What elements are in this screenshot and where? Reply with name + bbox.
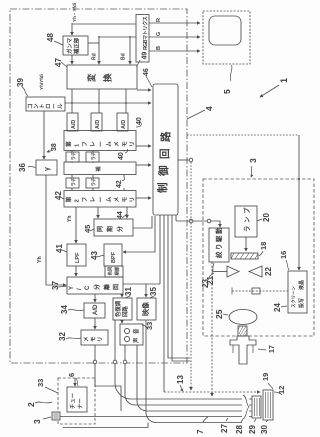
wire control box to 43 <box>123 216 155 252</box>
svg-text:Yh・Yfdi: Yh・Yfdi <box>72 3 77 22</box>
wire Yh input down to box 48 <box>71 23 73 35</box>
wire control bottom x176 <box>175 215 177 221</box>
label 5 <box>222 65 232 94</box>
svg-text:25: 25 <box>214 309 224 319</box>
svg-text:30: 30 <box>260 425 269 434</box>
label 42b <box>116 177 125 188</box>
wire control bottom x173 down <box>172 215 190 361</box>
label 33 frame <box>36 379 58 393</box>
wire 33 down a <box>125 345 135 405</box>
svg-text:音: 音 <box>132 328 140 334</box>
frame 4 (main unit, dash-dot) <box>10 9 187 363</box>
wire control bottom x164 to right <box>163 215 165 392</box>
wire x191 long down (dotted) <box>190 162 192 390</box>
antenna terminal <box>52 412 60 420</box>
cable line 11 <box>156 422 242 424</box>
wire 31 to 33 <box>121 320 123 323</box>
svg-text:18: 18 <box>259 242 268 250</box>
stub column c <box>123 151 125 191</box>
wire 35 down <box>146 320 156 423</box>
box 20 lamp <box>235 206 257 237</box>
wire 43 to chroma <box>112 265 114 268</box>
svg-text:33: 33 <box>36 379 45 387</box>
svg-text:42: 42 <box>54 191 63 200</box>
svg-text:47: 47 <box>54 58 63 67</box>
svg-text:同: 同 <box>96 226 104 232</box>
wire 37 right bus <box>123 283 160 285</box>
svg-text:31: 31 <box>124 287 133 296</box>
wire control bottom x169 down <box>168 215 190 358</box>
wide box B (interp) <box>64 162 136 175</box>
svg-text:LPF: LPF <box>75 252 81 263</box>
svg-text:C: C <box>85 285 91 290</box>
svg-text:モ: モ <box>90 336 97 342</box>
svg-text:23: 23 <box>201 279 210 288</box>
frame 3 (optical unit, dashed) <box>203 179 314 336</box>
barrel assembly <box>230 336 256 364</box>
cable line 12 step <box>63 423 148 428</box>
svg-text:り: り <box>215 244 223 250</box>
svg-text:回: 回 <box>159 149 171 160</box>
label 6 <box>67 373 78 386</box>
wire 39 to control box <box>65 102 151 104</box>
svg-text:A/D: A/D <box>93 304 99 315</box>
label 36 <box>18 163 36 172</box>
svg-text:27: 27 <box>220 424 229 433</box>
stub column a <box>71 151 73 191</box>
label 42 <box>54 191 64 200</box>
wire branch to box 49 input <box>72 23 136 25</box>
A/D converter a <box>67 113 78 131</box>
svg-text:Yh: Yh <box>37 256 43 263</box>
monitor 5 outer case <box>203 11 250 64</box>
connector block b <box>263 390 273 420</box>
label 3 antenna <box>32 417 51 424</box>
svg-text:映像: 映像 <box>141 301 150 316</box>
svg-text:/: / <box>77 288 83 290</box>
svg-text:リ: リ <box>97 336 104 342</box>
label 7 <box>196 417 208 434</box>
svg-text:メ: メ <box>114 141 121 147</box>
svg-text:A/D: A/D <box>71 120 77 129</box>
box 47 <box>67 65 137 89</box>
wire A to control <box>136 145 151 147</box>
label 20 <box>257 213 271 222</box>
svg-text:1: 1 <box>75 143 81 147</box>
svg-text:16: 16 <box>279 251 288 259</box>
svg-text:ラチ: ラチ <box>91 151 97 160</box>
svg-text:補正部: 補正部 <box>73 37 81 55</box>
label 40b <box>118 149 128 160</box>
svg-text:ン: ン <box>244 216 251 223</box>
svg-text:ト: ト <box>39 103 46 109</box>
svg-text:BPF: BPF <box>111 251 117 263</box>
wire bus down to 31 <box>121 294 123 297</box>
node circle 191,221 <box>189 219 193 223</box>
label 48 <box>46 33 63 45</box>
svg-text:5: 5 <box>222 89 232 94</box>
svg-text:43: 43 <box>90 251 99 260</box>
box 16/24 panel <box>288 271 307 313</box>
svg-text:36: 36 <box>18 163 27 172</box>
wire B to monitor <box>149 50 200 52</box>
wire 32 down through frame <box>95 345 121 411</box>
svg-text:12: 12 <box>277 386 286 394</box>
svg-text:ガンマ: ガンマ <box>66 37 74 54</box>
svg-text:38: 38 <box>51 143 58 151</box>
wire LPF down to 37 <box>75 266 77 276</box>
label 21 <box>206 263 215 285</box>
svg-text:34: 34 <box>60 305 69 314</box>
svg-text:28: 28 <box>235 425 244 434</box>
node feedthrough circles <box>93 360 97 364</box>
svg-text:35: 35 <box>149 287 158 296</box>
node circle 191,160 <box>189 158 193 162</box>
label 47 <box>54 58 67 67</box>
wire frame to tuner <box>74 378 76 386</box>
latch row1 a <box>66 152 79 162</box>
wire 31 down left <box>115 320 131 399</box>
svg-text:Yh/Yfdi: Yh/Yfdi <box>39 74 44 90</box>
lens 25 <box>229 310 257 325</box>
label 3 (optical unit) <box>248 158 258 177</box>
filter bar <box>231 253 258 259</box>
label 41 <box>55 244 67 253</box>
label 25 <box>214 309 228 319</box>
box aperture drive <box>209 228 229 262</box>
svg-text:色同: 色同 <box>107 266 114 275</box>
svg-text:4: 4 <box>204 106 214 111</box>
svg-text:29: 29 <box>248 425 257 434</box>
svg-text:Yh: Yh <box>67 216 73 222</box>
label 19 <box>261 373 273 389</box>
monitor 5 screen <box>209 16 241 45</box>
svg-text:RGBマトリクス: RGBマトリクス <box>141 16 149 50</box>
svg-text:48: 48 <box>46 33 55 42</box>
svg-text:スクリーン: スクリーン <box>290 286 297 308</box>
box 34 A/D <box>84 303 105 318</box>
box 33 audio <box>120 324 143 345</box>
svg-text:絞: 絞 <box>214 251 223 258</box>
svg-text:2: 2 <box>75 199 81 202</box>
svg-text:ナー: ナー <box>77 398 84 409</box>
latch row1 b <box>86 152 99 162</box>
svg-text:22: 22 <box>264 267 273 276</box>
svg-text:離: 離 <box>103 284 111 290</box>
wire B to control <box>136 164 151 166</box>
box 43 BPF <box>104 244 122 266</box>
wire 48 to 47 <box>71 55 73 64</box>
svg-text:γ: γ <box>44 167 51 171</box>
wire C down to LPF (Yh) <box>75 207 77 243</box>
wire 34 to 32 <box>94 318 96 329</box>
polarizer small <box>252 288 260 294</box>
svg-text:液晶: 液晶 <box>298 280 305 290</box>
stub column b <box>92 151 94 191</box>
label 39 <box>16 78 28 96</box>
svg-text:45: 45 <box>83 225 92 233</box>
svg-text:分: 分 <box>116 226 124 232</box>
cable line 9 <box>135 404 242 406</box>
wire 39 down to 36 <box>43 111 45 159</box>
svg-text:40: 40 <box>136 117 143 125</box>
svg-text:チュー: チュー <box>70 393 77 409</box>
wire C down to 45 b <box>126 207 128 218</box>
wire stubs to connector <box>249 399 252 417</box>
wire C down to 45 a <box>97 207 99 218</box>
mirror prism left <box>249 266 262 277</box>
connector block a <box>252 396 261 418</box>
label 31 <box>124 287 133 298</box>
svg-text:20: 20 <box>262 213 271 222</box>
svg-text:期部: 期部 <box>114 266 121 276</box>
wire R to monitor <box>149 22 200 24</box>
label 2 <box>26 402 52 407</box>
svg-text:R: R <box>156 18 162 22</box>
label 27 <box>220 418 229 433</box>
label 30 <box>260 420 269 434</box>
label 17 <box>258 345 276 353</box>
label 40 <box>136 117 143 127</box>
box 36 gamma <box>36 160 57 175</box>
svg-text:リ: リ <box>129 197 136 203</box>
box 32 <box>81 330 108 345</box>
label 29 <box>248 419 257 434</box>
svg-text:ロ: ロ <box>45 103 52 109</box>
control circuit box <box>153 84 178 215</box>
cable line 7 (dashed ctrl) <box>164 391 260 393</box>
svg-text:17: 17 <box>269 345 276 353</box>
wire Yh from 36 down to 37 <box>46 175 66 285</box>
wire 45 to control box <box>133 216 152 228</box>
svg-text:24: 24 <box>273 303 282 312</box>
svg-text:32: 32 <box>58 332 67 341</box>
svg-text:プ: プ <box>242 207 251 214</box>
mirror prism right <box>227 266 239 277</box>
svg-text:ラチ: ラチ <box>91 177 97 186</box>
wire 37 to 34 <box>94 294 96 302</box>
wire G to monitor <box>149 36 200 38</box>
label 16 <box>279 251 289 270</box>
wire 48 right to node <box>88 42 99 44</box>
A/D converter c <box>117 113 128 131</box>
svg-text:A/D: A/D <box>95 120 101 129</box>
A/D converter b <box>91 113 102 131</box>
label 45 <box>83 225 94 233</box>
svg-text:ム: ム <box>106 141 113 147</box>
svg-text:ム: ム <box>106 197 113 203</box>
wide box C (frame memory 2) <box>64 191 136 208</box>
wire light path to panel <box>232 290 288 292</box>
svg-text:3: 3 <box>248 158 258 163</box>
wire 47 bottom stubs <box>71 89 73 113</box>
svg-text:7: 7 <box>196 429 205 434</box>
svg-text:ラチ: ラチ <box>71 177 77 186</box>
svg-text:分: 分 <box>93 284 101 290</box>
label 46 <box>143 68 152 87</box>
wire control bottom x160 to right <box>159 215 161 284</box>
label 35 <box>149 287 158 298</box>
latch row2 a <box>66 178 79 188</box>
wire y221 to aperture <box>176 221 220 227</box>
svg-text:メ: メ <box>83 336 90 342</box>
svg-text:第: 第 <box>65 141 73 147</box>
wire node x130 into 47 <box>129 37 131 64</box>
label 4 <box>187 106 214 119</box>
label 34 <box>60 305 84 314</box>
svg-text:補: 補 <box>95 166 102 172</box>
svg-text:19: 19 <box>261 373 270 381</box>
box 37 Y/C <box>67 277 123 294</box>
svg-text:換: 換 <box>103 73 113 82</box>
label 49 <box>137 52 149 67</box>
svg-text:色復調: 色復調 <box>114 300 122 317</box>
svg-text:1: 1 <box>279 78 289 83</box>
latch row2 b <box>86 178 99 188</box>
wire down x299 to panel 16 <box>298 135 300 270</box>
svg-text:Bd: Bd <box>121 53 127 60</box>
wire lamp to filter <box>245 237 247 251</box>
svg-text:期: 期 <box>106 226 114 233</box>
svg-text:Rd: Rd <box>92 53 98 60</box>
label 44 <box>117 211 127 219</box>
svg-text:変: 変 <box>87 73 97 82</box>
wire bus down to 35 <box>145 284 147 297</box>
svg-text:路: 路 <box>159 131 172 142</box>
box 45 sync sep <box>94 219 133 236</box>
svg-text:2: 2 <box>26 402 36 407</box>
wire node x99 up/down into 47 <box>98 37 100 64</box>
box 48 <box>63 36 88 55</box>
label 12 <box>274 386 286 395</box>
box 35 <box>137 298 156 320</box>
svg-text:動: 動 <box>214 227 223 234</box>
svg-text:49: 49 <box>142 52 149 60</box>
svg-text:ル: ル <box>57 103 64 109</box>
wire C to control <box>136 197 151 199</box>
svg-text:リ: リ <box>129 141 136 147</box>
svg-text:回路: 回路 <box>121 306 129 317</box>
svg-text:ー: ー <box>99 197 105 203</box>
tuner box <box>67 387 87 412</box>
box 41 LPF <box>67 244 86 266</box>
wire remote dotted to panel <box>187 134 299 136</box>
svg-text:モ: モ <box>122 197 129 203</box>
lens mount hatched <box>238 326 247 336</box>
frame 2 (tuner unit, dashed) <box>58 378 95 424</box>
box 49 RGB matrix <box>136 15 149 63</box>
svg-text:第: 第 <box>65 197 73 203</box>
wire control right y160 <box>178 159 191 161</box>
svg-text:御: 御 <box>157 165 170 177</box>
svg-text:ラチ: ラチ <box>71 151 77 160</box>
svg-text:39: 39 <box>16 78 25 87</box>
svg-text:フ: フ <box>82 141 89 147</box>
svg-text:レ: レ <box>90 197 97 203</box>
label 28 <box>235 419 244 434</box>
svg-text:駆: 駆 <box>214 235 223 243</box>
svg-text:41: 41 <box>55 244 64 253</box>
label 33b <box>142 322 154 330</box>
svg-text:フ: フ <box>82 197 89 203</box>
svg-text:A/D: A/D <box>121 120 127 129</box>
box 31 <box>113 298 132 320</box>
brace <box>243 395 249 419</box>
svg-text:モ: モ <box>122 141 129 147</box>
svg-text:声: 声 <box>132 337 140 344</box>
svg-text:制: 制 <box>156 183 169 194</box>
label 43 <box>90 251 104 260</box>
label 13 <box>176 375 185 391</box>
svg-text:46: 46 <box>143 68 150 76</box>
svg-text:3: 3 <box>32 419 42 424</box>
svg-text:13: 13 <box>176 375 185 384</box>
svg-text:37: 37 <box>51 281 60 290</box>
svg-text:42: 42 <box>116 180 123 188</box>
cable line antenna <box>60 416 242 418</box>
wire aperture ctrl down <box>211 262 213 396</box>
label 37 <box>51 281 67 290</box>
wire 33 down b <box>137 345 147 411</box>
label 38 <box>47 143 58 152</box>
svg-text:レ: レ <box>90 141 97 147</box>
node circle 209,221 <box>207 219 211 223</box>
svg-text:Y: Y <box>69 286 75 290</box>
svg-text:ラ: ラ <box>243 226 251 232</box>
svg-text:投写: 投写 <box>298 298 305 308</box>
svg-text:B: B <box>156 46 162 50</box>
svg-text:ー: ー <box>99 141 105 147</box>
box 39 <box>26 97 65 111</box>
svg-text:6: 6 <box>67 373 76 377</box>
svg-text:コ: コ <box>27 103 34 109</box>
svg-text:40: 40 <box>118 152 125 160</box>
svg-text:ン: ン <box>33 103 40 109</box>
label 24 <box>273 303 287 312</box>
cable line 10 <box>147 410 242 412</box>
label 32 <box>58 332 81 341</box>
svg-text:メ: メ <box>114 197 121 203</box>
svg-text:G: G <box>156 32 162 36</box>
wide box A (frame memory 1) <box>64 131 136 151</box>
label 18 <box>259 242 268 256</box>
box chroma small <box>105 266 123 277</box>
cable line 8 <box>131 398 242 400</box>
label 1 <box>260 78 289 97</box>
label 23 <box>201 273 214 288</box>
svg-text:44: 44 <box>117 211 124 219</box>
svg-text:回: 回 <box>112 284 120 290</box>
wire 47 to 49 via x=99 <box>99 36 136 38</box>
wire 47 right to control box <box>137 89 151 91</box>
